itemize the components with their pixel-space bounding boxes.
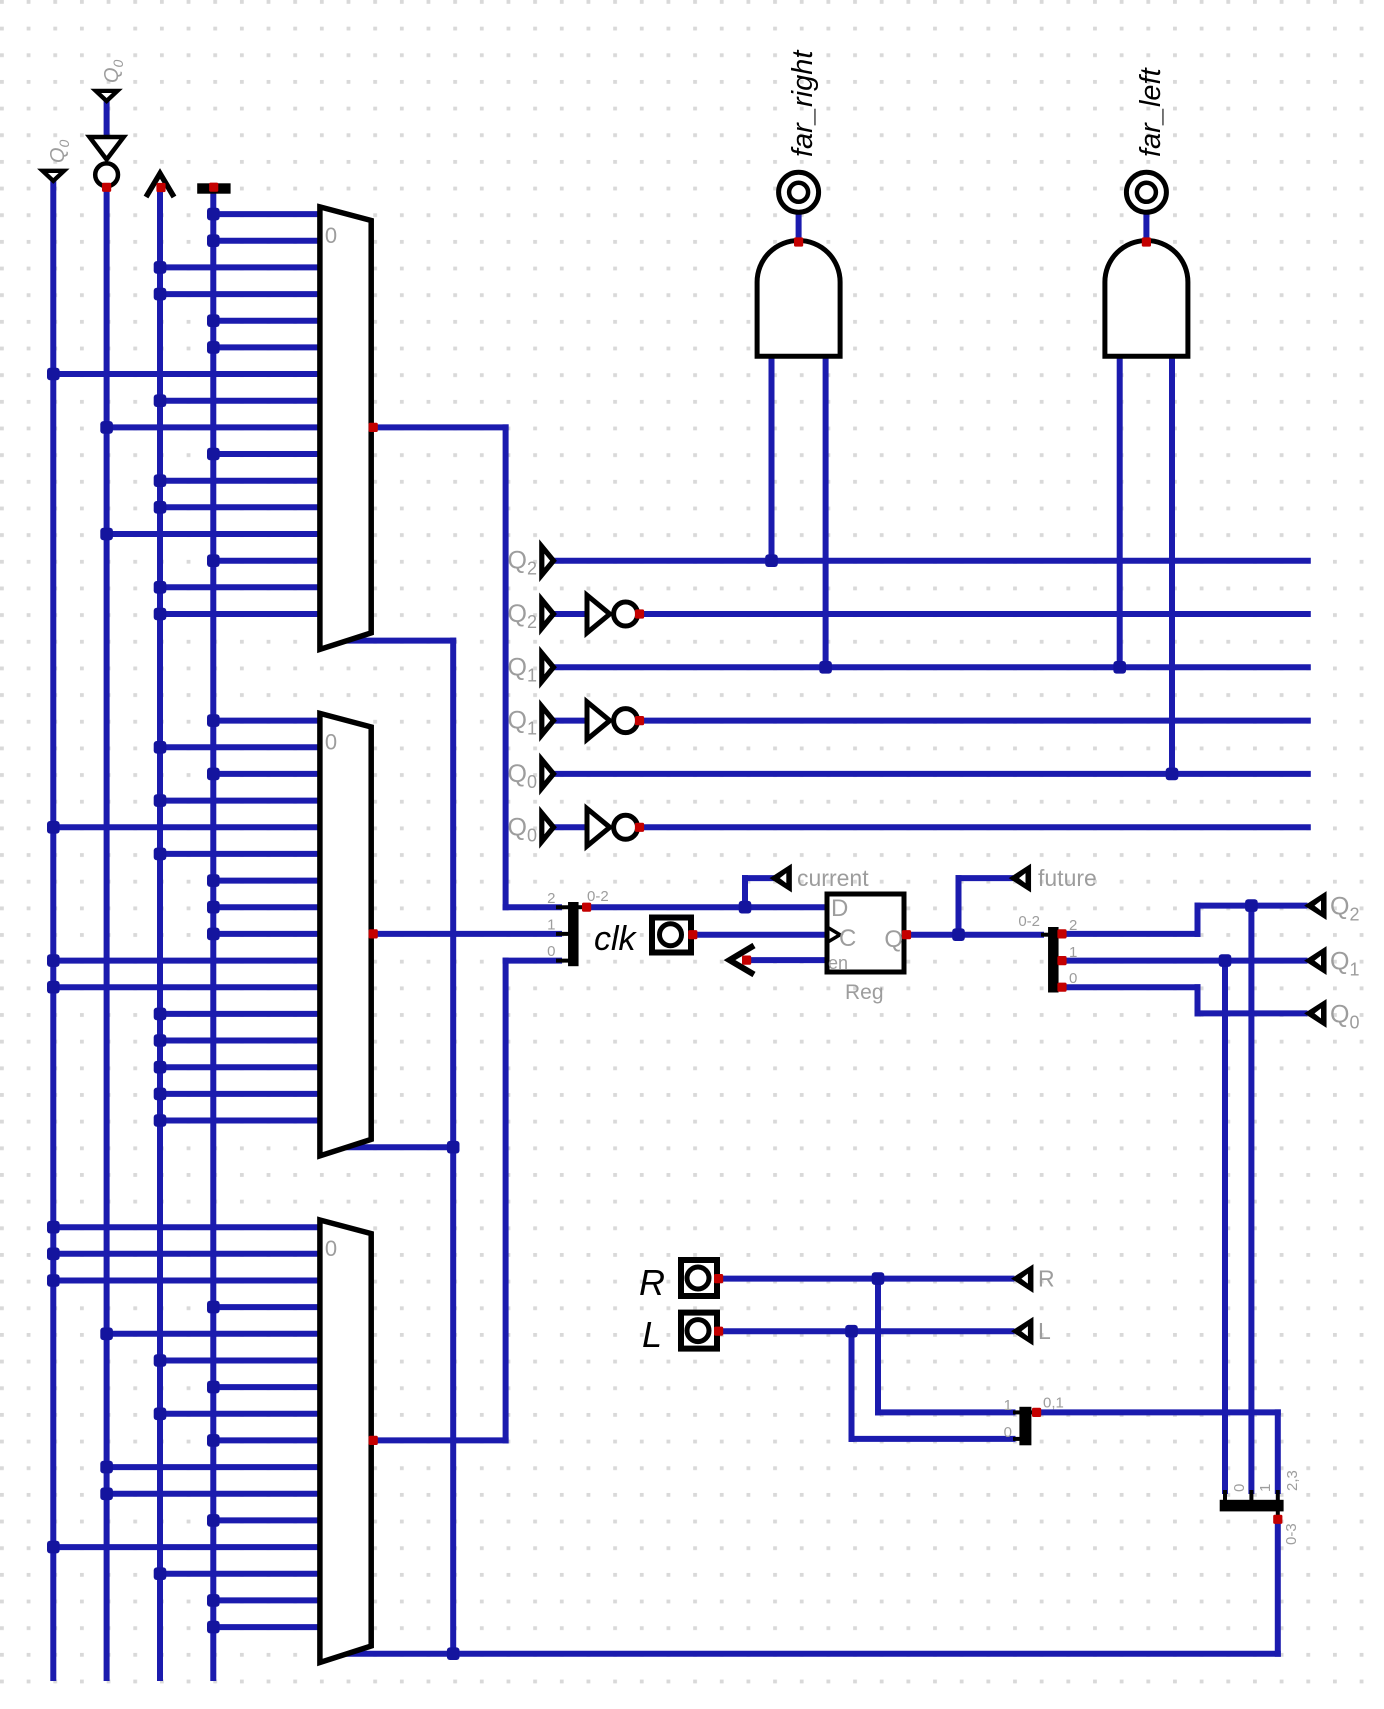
svg-text:0-2: 0-2 (587, 888, 609, 905)
svg-text:0: 0 (325, 223, 337, 248)
svg-text:C: C (839, 925, 856, 952)
svg-text:far_left: far_left (1135, 66, 1167, 157)
svg-text:0-2: 0-2 (1018, 913, 1040, 930)
svg-text:0,1: 0,1 (1043, 1395, 1064, 1412)
svg-text:0: 0 (547, 943, 555, 960)
svg-text:0: 0 (1004, 1424, 1012, 1441)
svg-text:0: 0 (325, 1236, 337, 1261)
svg-text:L: L (642, 1314, 662, 1355)
svg-text:2: 2 (1069, 917, 1077, 934)
svg-text:1: 1 (547, 917, 555, 934)
svg-text:0: 0 (1231, 1484, 1248, 1492)
svg-text:clk: clk (594, 920, 638, 958)
svg-text:2,3: 2,3 (1284, 1470, 1301, 1491)
svg-text:D: D (831, 895, 848, 922)
svg-text:1: 1 (1257, 1484, 1274, 1492)
svg-text:0: 0 (325, 730, 337, 755)
svg-text:L: L (1038, 1318, 1051, 1344)
svg-text:Q: Q (884, 926, 903, 953)
svg-text:en: en (828, 953, 848, 973)
svg-text:far_right: far_right (787, 49, 819, 157)
svg-text:1: 1 (1069, 944, 1077, 961)
svg-text:Reg: Reg (845, 981, 884, 1004)
svg-text:current: current (797, 865, 869, 891)
svg-text:0: 0 (1069, 970, 1077, 987)
svg-text:1: 1 (1004, 1397, 1012, 1414)
svg-text:0-3: 0-3 (1283, 1523, 1300, 1545)
svg-text:R: R (639, 1262, 665, 1303)
svg-text:R: R (1038, 1266, 1055, 1292)
svg-text:future: future (1038, 865, 1097, 891)
svg-text:2: 2 (547, 890, 555, 907)
